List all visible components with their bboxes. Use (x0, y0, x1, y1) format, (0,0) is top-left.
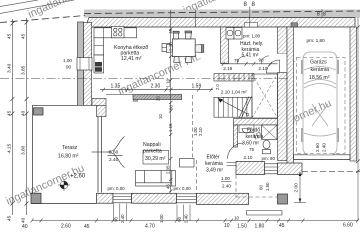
wall left grey layer (78, 22, 84, 105)
car (302, 52, 338, 155)
svg-text:45: 45 (166, 184, 171, 189)
stairs lower flight (214, 97, 252, 117)
roof dashed line in band (84, 11, 360, 14)
wall dining-utility (221, 27, 229, 64)
wall kitchen SW corner L (92, 99, 106, 106)
svg-text:1.15: 1.15 (168, 123, 173, 132)
chair bottom 2 (186, 57, 192, 63)
axis dash-dot line (0, 78, 290, 80)
svg-text:pm: 1,80: pm: 1,80 (243, 34, 261, 39)
svg-text:45: 45 (279, 223, 285, 229)
svg-text:Nappali: Nappali (143, 142, 161, 148)
terrace door leader 5.60/2.40 (92, 137, 125, 168)
svg-text:pm: 1,80: pm: 1,80 (307, 38, 326, 43)
wall top (84, 18, 355, 31)
svg-text:2.40: 2.40 (120, 214, 125, 223)
stairwell void dashed X (252, 74, 278, 118)
svg-text:parketta: parketta (143, 148, 162, 154)
svg-text:3.85: 3.85 (21, 65, 27, 75)
garage door (294, 154, 351, 156)
svg-text:10: 10 (158, 114, 163, 119)
foyer south wall right (278, 163, 303, 175)
svg-text:pm: 90: pm: 90 (262, 156, 276, 161)
svg-text:40: 40 (21, 217, 27, 223)
utility washer 1 (226, 28, 234, 40)
svg-text:5.60: 5.60 (109, 150, 119, 156)
wall south main segment A (97, 193, 114, 203)
terrace south edge (31, 203, 97, 205)
svg-text:2.20: 2.20 (168, 42, 173, 51)
svg-text:90: 90 (66, 65, 72, 70)
svg-text:75: 75 (249, 147, 255, 152)
bathroom west wall (234, 125, 238, 147)
kitchen island box (162, 44, 170, 52)
parking dashed rect (297, 58, 346, 154)
utility washer 2 (234, 28, 242, 40)
door arc to garage hall (267, 60, 280, 73)
svg-text:2.19: 2.19 (223, 66, 232, 71)
bottom dim line (32, 220, 358, 222)
left dim line 2 (26, 18, 28, 215)
chair right (195, 45, 201, 53)
svg-text:2.40: 2.40 (184, 214, 189, 223)
svg-text:pm: 0,00: pm: 0,00 (174, 186, 192, 191)
svg-text:3.40: 3.40 (7, 63, 13, 73)
svg-text:4.15: 4.15 (7, 143, 13, 153)
svg-text:1.00: 1.00 (221, 176, 230, 181)
svg-text:Garázs: Garázs (310, 60, 327, 66)
entry window (265, 164, 278, 174)
small dark block (291, 23, 298, 27)
svg-text:40: 40 (21, 110, 27, 116)
overhang dashed line right (302, 170, 360, 172)
svg-text:2.10: 2.10 (258, 66, 267, 71)
left dim line 1 (11, 19, 13, 215)
svg-text:kerámia: kerámia (246, 134, 264, 140)
svg-text:3,60 m²: 3,60 m² (242, 141, 259, 147)
svg-text:40: 40 (22, 224, 28, 230)
ticks left dims (10, 21, 28, 206)
svg-text:2.35: 2.35 (166, 165, 171, 174)
roof overhang grey band top (84, 10, 360, 18)
svg-text:2.30: 2.30 (151, 84, 161, 90)
window2 height dims 90 2.40 (176, 205, 178, 222)
terrace pillar (31, 193, 41, 203)
window south 2 (177, 194, 197, 203)
terrace west edge (31, 105, 33, 203)
roof diagonal line 2 top-left (0, 0, 38, 7)
svg-text:30,29 m²: 30,29 m² (145, 156, 166, 162)
svg-text:3,49 m²: 3,49 m² (206, 167, 223, 173)
svg-text:2.40: 2.40 (109, 157, 119, 163)
svg-text:2.10 1,04 m²: 2.10 1,04 m² (221, 90, 247, 95)
wall top notch at 8|8 (245, 23, 258, 28)
door arc utility 2 (261, 56, 269, 64)
svg-text:2.60: 2.60 (61, 224, 71, 230)
door arc utility 1 (237, 56, 245, 64)
beam hatched bar (133, 95, 182, 100)
svg-text:75: 75 (234, 58, 240, 63)
toilet (263, 140, 270, 149)
svg-text:2.40: 2.40 (222, 184, 231, 189)
porch dashed lines (236, 196, 277, 198)
svg-text:1,00: 1,00 (63, 58, 72, 63)
dim line stairs top y=64 (221, 62, 287, 66)
stair walking line (246, 113, 249, 116)
dining table (172, 39, 195, 57)
svg-text:6.60: 6.60 (343, 223, 353, 229)
svg-text:1.10: 1.10 (165, 78, 170, 87)
svg-text:1.00: 1.00 (159, 214, 164, 223)
garage east wall (350, 27, 357, 161)
chair top 1 (167, 31, 204, 62)
kitchen left appliances (94, 38, 104, 55)
sofa (136, 171, 176, 187)
foyer south wall left (236, 162, 265, 175)
chair top 2 (185, 33, 191, 39)
svg-text:18,56 m²: 18,56 m² (309, 75, 330, 81)
door threshold (227, 161, 237, 163)
svg-text:2.10: 2.10 (198, 127, 203, 136)
svg-text:1.80: 1.80 (255, 224, 265, 230)
stairs upper steps row (214, 74, 254, 82)
wall east main upper (278, 27, 288, 54)
svg-text:10: 10 (224, 223, 230, 229)
terrace north edge (32, 104, 77, 106)
window south 1 (113, 194, 132, 203)
svg-text:45: 45 (7, 33, 13, 39)
chair bottom 1 (174, 57, 180, 63)
svg-text:2.60: 2.60 (315, 143, 320, 152)
svg-text:45: 45 (21, 33, 27, 39)
wall garage west (287, 27, 294, 165)
svg-text:60: 60 (259, 185, 264, 190)
chair left (167, 45, 173, 53)
dashed projection line vertical (191, 95, 193, 160)
dim chain vertical x=170.7 (170, 10, 172, 193)
svg-text:4.70: 4.70 (145, 224, 155, 230)
svg-text:5,41 m²: 5,41 m² (242, 53, 259, 59)
svg-text:45: 45 (7, 110, 13, 116)
svg-text:Fürdő: Fürdő (247, 128, 260, 134)
svg-text:8: 8 (317, 12, 320, 18)
svg-text:1.50: 1.50 (237, 224, 247, 230)
stove 4 burners (114, 28, 122, 36)
svg-text:46: 46 (168, 28, 173, 33)
terrace pillar NW (34, 108, 44, 115)
floor edge line kitchen (106, 94, 133, 96)
radiator (133, 99, 137, 102)
svg-text:16,80 m²: 16,80 m² (58, 154, 79, 160)
svg-text:1.35: 1.35 (111, 84, 121, 90)
roof diagonal line 1 top-left (0, 0, 74, 14)
svg-text:1.59: 1.59 (192, 84, 202, 90)
svg-text:2.10: 2.10 (244, 155, 253, 160)
svg-text:1.50: 1.50 (265, 182, 270, 191)
bathroom door arc (228, 143, 244, 159)
svg-text:10: 10 (234, 216, 240, 221)
svg-text:80: 80 (168, 105, 173, 110)
wall east main lower (278, 73, 288, 161)
svg-text:Előtér: Előtér (207, 155, 220, 161)
dashed line hall door (287, 61, 296, 63)
svg-text:45: 45 (84, 224, 90, 230)
svg-text:2.0: 2.0 (215, 84, 220, 90)
door gap east wall (278, 54, 288, 73)
washbasin (239, 125, 254, 133)
stair break line (242, 97, 252, 119)
svg-text:20: 20 (156, 96, 161, 101)
dim line horizontal y=91 (100, 88, 213, 92)
svg-text:2.00: 2.00 (294, 183, 300, 193)
bathroom north wall (234, 119, 278, 126)
kitchen counter top (94, 28, 137, 38)
svg-text:+2,60: +2,60 (70, 174, 86, 180)
window1 height dims 90 2.40 (113, 204, 115, 222)
svg-text:8: 8 (323, 12, 326, 18)
right dim line (357, 17, 359, 221)
wall south main segment B (132, 193, 177, 203)
roof dashed line left (0, 16, 85, 23)
dim 2.00 vertical right (299, 172, 301, 203)
side table (180, 159, 195, 168)
wall left hatched layer (84, 23, 92, 106)
svg-text:pm: 0,00: pm: 0,00 (108, 186, 126, 191)
wall south main segment C (197, 193, 249, 204)
svg-text:2.40: 2.40 (322, 143, 327, 152)
svg-text:kerámia: kerámia (311, 67, 330, 73)
porch pillar (278, 194, 288, 204)
svg-text:45: 45 (7, 215, 13, 221)
window left wall (77, 58, 92, 71)
shower (262, 125, 278, 140)
entry steps (247, 210, 283, 212)
benchmark symbol (58, 179, 70, 191)
glass wall west living room (97, 117, 99, 193)
svg-text:12,41 m²: 12,41 m² (121, 56, 142, 62)
svg-text:kerámia: kerámia (205, 161, 223, 167)
svg-text:Terasz: Terasz (62, 145, 78, 151)
svg-text:3.80: 3.80 (21, 145, 27, 155)
